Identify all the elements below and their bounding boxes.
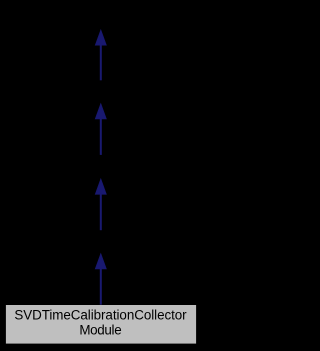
svg-text:Module: Module (79, 323, 121, 338)
svg-text:SVDTimeCalibrationCollector: SVDTimeCalibrationCollector (14, 308, 187, 323)
